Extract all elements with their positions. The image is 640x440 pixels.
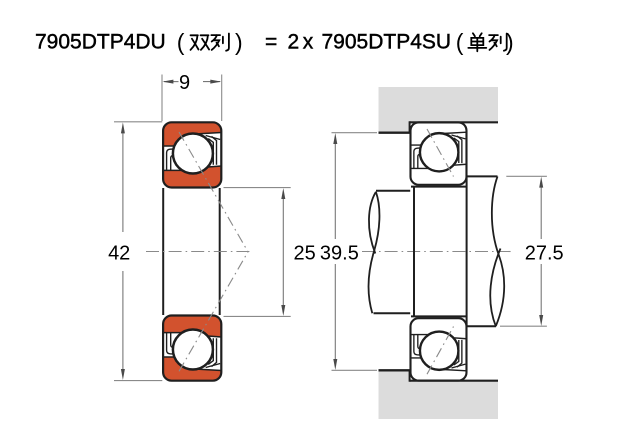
dim 27.5 ext lines bbox=[506, 175, 547, 177]
housing shoulder line top-left bbox=[379, 131, 411, 133]
dim 39.5 ext lines bbox=[332, 132, 378, 134]
svg-text:(: ( bbox=[456, 29, 464, 55]
bearing section top-left bbox=[162, 121, 221, 187]
dim 9 line + arrows bbox=[164, 81, 179, 83]
left cylinder bottom bbox=[374, 312, 411, 314]
svg-text:=: = bbox=[265, 31, 277, 54]
bore line left bbox=[162, 188, 164, 315]
right shoulder bottom bbox=[467, 325, 496, 327]
dim 27.5 line + arrows bbox=[540, 187, 542, 239]
housing bottom bbox=[379, 371, 499, 420]
svg-text:9: 9 bbox=[179, 72, 190, 94]
left cylinder break bbox=[368, 192, 379, 313]
dim 42 line + arrows bbox=[122, 133, 124, 232]
shaft seat bottom line bbox=[411, 315, 467, 317]
dim 42 ext lines bbox=[114, 121, 162, 123]
housing step vertical bottom bbox=[409, 370, 411, 381]
hanzi 列 (2) bbox=[489, 34, 507, 51]
bore line right bbox=[219, 188, 221, 315]
contact line top ball bbox=[427, 129, 454, 177]
dim 25 ext lines bbox=[224, 187, 291, 189]
contact angle line upper bbox=[179, 132, 248, 252]
svg-text:42: 42 bbox=[108, 242, 130, 264]
bearing section bottom-left bbox=[162, 315, 221, 381]
hanzi 列 bbox=[211, 34, 229, 51]
svg-text:7905DTP4SU: 7905DTP4SU bbox=[322, 31, 452, 54]
svg-text:25: 25 bbox=[294, 242, 316, 264]
center line bbox=[146, 251, 251, 253]
right shoulder face bbox=[466, 176, 468, 326]
shaft seat top line bbox=[411, 186, 467, 188]
title text bbox=[35, 29, 514, 55]
svg-text:2: 2 bbox=[288, 31, 300, 54]
bearing section bottom-right bbox=[409, 318, 466, 382]
right break bbox=[492, 176, 504, 326]
housing top bbox=[379, 87, 499, 132]
dim 25 line + arrows bbox=[282, 193, 284, 311]
svg-text:x: x bbox=[303, 31, 314, 54]
contact angle line lower bbox=[179, 252, 248, 371]
hanzi 单 bbox=[468, 33, 486, 51]
hanzi 双 bbox=[191, 35, 210, 50]
svg-text:27.5: 27.5 bbox=[525, 242, 564, 264]
svg-text:7905DTP4DU: 7905DTP4DU bbox=[35, 31, 166, 54]
dim 9 ext lines bbox=[161, 75, 163, 122]
housing step vertical top bbox=[409, 121, 411, 132]
svg-text:39.5: 39.5 bbox=[320, 242, 359, 264]
bearing section top-right bbox=[409, 121, 466, 185]
shaft seat left face bbox=[413, 187, 415, 317]
center line shaft bbox=[362, 251, 512, 253]
right shoulder top bbox=[467, 175, 498, 177]
left cylinder top bbox=[376, 190, 410, 192]
housing bore line top-right bbox=[410, 121, 499, 123]
dim 39.5 line + arrows bbox=[334, 143, 336, 239]
housing shoulder line bottom-left bbox=[379, 369, 411, 371]
contact line bottom ball bbox=[427, 327, 454, 375]
svg-text:(: ( bbox=[177, 29, 185, 55]
housing bore line bottom-right bbox=[410, 380, 499, 382]
svg-text:): ) bbox=[235, 29, 243, 55]
